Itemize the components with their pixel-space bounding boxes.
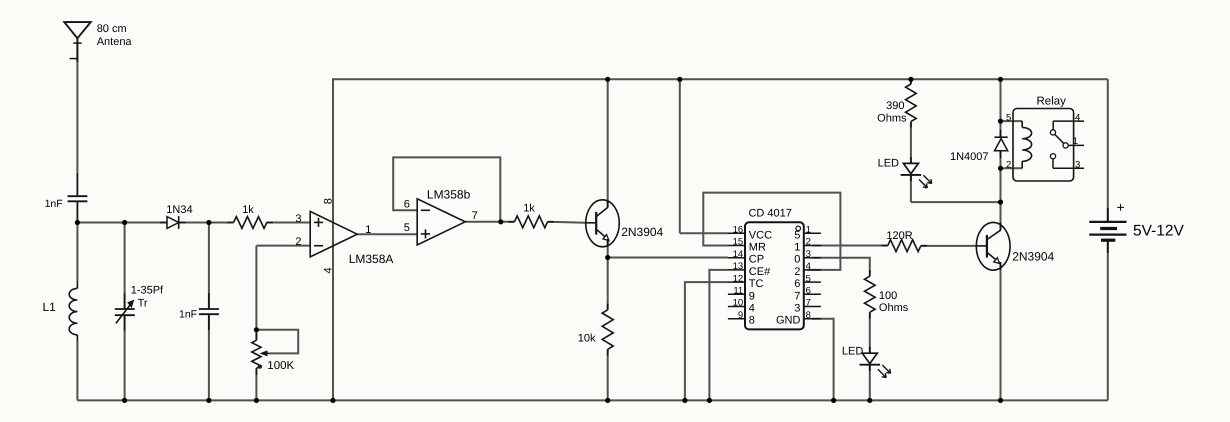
svg-text:1: 1	[1073, 136, 1078, 147]
svg-text:2: 2	[806, 237, 811, 248]
svg-text:3: 3	[794, 303, 800, 315]
svg-text:5V-12V: 5V-12V	[1133, 223, 1185, 240]
svg-text:LM358A: LM358A	[349, 252, 394, 266]
svg-text:CD 4017: CD 4017	[748, 207, 791, 219]
svg-text:14: 14	[733, 249, 744, 260]
svg-text:9: 9	[738, 310, 743, 321]
svg-text:VCC: VCC	[749, 229, 772, 241]
svg-text:CE#: CE#	[749, 266, 771, 278]
svg-text:13: 13	[733, 261, 744, 272]
svg-text:2N3904: 2N3904	[1012, 249, 1054, 263]
svg-text:Relay: Relay	[1037, 96, 1067, 108]
svg-text:6: 6	[794, 278, 800, 290]
svg-text:7: 7	[806, 298, 811, 309]
svg-text:7: 7	[794, 290, 800, 302]
svg-text:Ohms: Ohms	[877, 113, 907, 125]
svg-text:1k: 1k	[523, 203, 535, 215]
svg-text:8: 8	[806, 310, 811, 321]
svg-text:2: 2	[295, 236, 301, 248]
svg-text:1: 1	[794, 242, 800, 254]
svg-text:100: 100	[879, 290, 897, 302]
svg-text:8: 8	[749, 315, 755, 327]
svg-text:16: 16	[733, 225, 744, 236]
svg-text:L1: L1	[43, 300, 57, 314]
svg-text:4: 4	[806, 261, 811, 272]
svg-text:0: 0	[794, 254, 800, 266]
svg-text:80 cm: 80 cm	[97, 23, 127, 35]
svg-text:4: 4	[749, 303, 755, 315]
svg-text:1N34: 1N34	[166, 204, 192, 216]
svg-text:LED: LED	[878, 158, 899, 170]
svg-text:MR: MR	[749, 242, 766, 254]
svg-text:390: 390	[886, 100, 904, 112]
svg-text:100K: 100K	[267, 360, 294, 372]
svg-text:1N4007: 1N4007	[950, 151, 989, 163]
svg-text:1: 1	[806, 225, 811, 236]
svg-text:Tr: Tr	[138, 297, 148, 309]
svg-text:9: 9	[749, 290, 755, 302]
svg-text:1nF: 1nF	[45, 198, 63, 210]
svg-text:12: 12	[733, 273, 744, 284]
svg-text:4: 4	[323, 267, 335, 273]
svg-text:8: 8	[323, 198, 335, 204]
svg-text:GND: GND	[776, 315, 801, 327]
svg-text:1k: 1k	[242, 204, 254, 216]
svg-text:5: 5	[1006, 112, 1011, 123]
svg-text:6: 6	[404, 199, 410, 211]
svg-text:2: 2	[794, 266, 800, 278]
svg-text:LM358b: LM358b	[427, 187, 471, 201]
svg-text:4: 4	[1075, 112, 1080, 123]
svg-text:6: 6	[806, 286, 811, 297]
svg-text:CP: CP	[749, 254, 764, 266]
svg-text:10k: 10k	[578, 333, 596, 345]
svg-text:5: 5	[806, 273, 811, 284]
svg-text:11: 11	[733, 286, 743, 297]
svg-text:5: 5	[404, 222, 410, 234]
svg-text:Ohms: Ohms	[879, 302, 909, 314]
svg-text:3: 3	[1075, 160, 1080, 171]
svg-text:7: 7	[472, 210, 478, 222]
svg-text:2N3904: 2N3904	[621, 225, 663, 239]
svg-text:3: 3	[806, 249, 811, 260]
svg-text:1: 1	[365, 224, 371, 236]
svg-text:10: 10	[733, 298, 744, 309]
svg-text:TC: TC	[749, 278, 764, 290]
svg-text:Antena: Antena	[97, 36, 133, 48]
svg-text:LED: LED	[842, 345, 863, 357]
svg-text:1nF: 1nF	[179, 309, 197, 321]
svg-text:2: 2	[1006, 160, 1011, 171]
svg-text:3: 3	[295, 213, 301, 225]
svg-text:15: 15	[733, 237, 744, 248]
svg-text:120R: 120R	[886, 230, 912, 242]
svg-text:+: +	[1117, 199, 1125, 215]
svg-text:1-35Pf: 1-35Pf	[131, 285, 164, 297]
